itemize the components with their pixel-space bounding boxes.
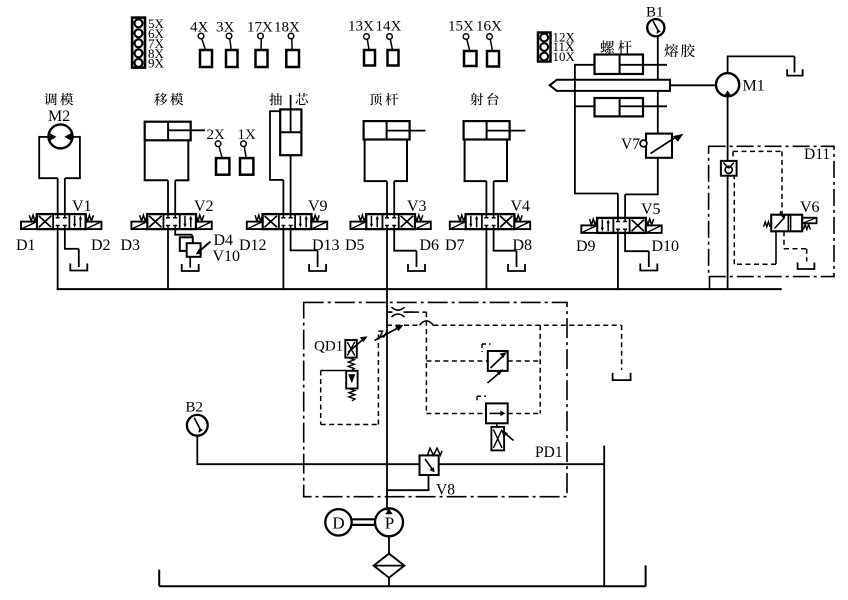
flow control valve V7 [640,134,683,158]
motor M2 [49,124,73,148]
valve V3 [350,214,430,229]
label 调模 [44,93,73,105]
valve V6 [764,211,817,231]
sequence valve V8 [420,448,443,475]
filter [374,554,405,578]
svg-text:QD1: QD1 [314,339,343,355]
pilot dashed line from orifice [414,311,426,313]
pilot relief valve 2 in PD1 [477,396,514,450]
wire: V10 to tank [189,257,191,268]
svg-text:V5: V5 [641,201,661,218]
tank PD1 drain [613,373,631,380]
svg-text:V4: V4 [511,198,531,215]
svg-text:1X: 1X [238,127,257,143]
pilot dashed box around QD1 valve [321,331,387,424]
limit switch 3X [216,20,238,68]
labels 12X 11X 10X [553,30,576,64]
injection cylinder lower [595,98,668,116]
svg-text:V6: V6 [800,199,820,216]
pilot relief valve 1 in PD1 [482,344,508,383]
valve V1 [21,214,101,229]
limit switch 15X [448,19,477,67]
svg-text:V1: V1 [72,198,92,215]
tank under V5 [640,264,657,271]
legend block 12X-10X [538,33,551,62]
svg-text:V3: V3 [407,198,427,215]
wire: cylinder to V3 ports [387,181,394,214]
legend block 5X-9X [132,18,145,68]
svg-text:D2: D2 [91,237,111,254]
svg-text:15X: 15X [448,19,474,35]
wire: V7 to V5 port B [625,158,659,218]
wire: cylinder cap side to V9 A [269,110,283,214]
label 熔胶 [664,44,694,57]
svg-text:D1: D1 [16,237,36,254]
screw shaft [550,80,670,91]
wire: M1 case drain to tank [727,56,795,73]
tank under V3 [408,264,425,271]
limit switch 18X [274,20,300,68]
svg-text:D5: D5 [345,237,365,254]
wire: V5 T to tank [624,233,649,267]
limit switch 4X [190,20,212,68]
svg-text:D9: D9 [576,238,596,255]
check valve in D11 [721,161,737,176]
pilot dashed line main to PD1 drain [387,321,622,370]
wire: M1 to check valve [727,96,729,161]
valve V4 [450,214,530,229]
wire: filter to tank [388,578,390,587]
svg-text:13X: 13X [348,19,374,35]
limit switch 13X [348,19,375,66]
limit switch 16X [476,19,502,67]
tank top-right [787,69,802,75]
svg-text:3X: 3X [216,20,235,36]
pump/motor M1 [716,73,739,96]
svg-text:V8: V8 [436,482,455,499]
variable throttle arrow on main line [375,325,404,341]
limit switch 14X [376,19,402,66]
svg-text:D12: D12 [239,237,267,254]
svg-text:M1: M1 [743,78,765,95]
valve V5 [581,218,661,233]
cylinder 顶杆 [364,121,426,181]
cylinder 抽芯 (vertical, rod up) [280,95,301,155]
orifice on branch line [387,307,414,317]
wire: D11 corner to bus [709,277,711,290]
svg-text:18X: 18X [274,20,300,36]
svg-text:D7: D7 [445,237,465,254]
tank under V4 [508,264,525,271]
electric motor D [325,509,351,535]
svg-text:2X: 2X [207,127,226,143]
block boundary QD1 (chain line) [304,302,567,496]
wire: V9 T to tank [290,229,318,267]
wire: V5 P to bus [617,233,619,289]
tank drain V6 [798,263,815,270]
svg-text:D3: D3 [121,237,141,254]
label 射台 [470,93,498,106]
wire: check valve to bus [727,176,729,289]
svg-text:B2: B2 [186,400,204,416]
hydraulic pump P [375,508,403,536]
labels 5X 6X 7X 8X 9X [148,16,165,71]
bus line (pressure rail) [57,288,782,290]
svg-text:9X: 9X [148,56,165,71]
proportional valve QD1 [345,336,367,401]
tank under V10 [182,264,199,271]
pilot dashed box PD1 network [426,312,540,413]
svg-text:10X: 10X [553,49,576,64]
relief valve V10 [180,237,211,256]
wire: V9 P to bus [282,229,284,289]
svg-text:P: P [385,514,394,533]
cylinder 射台 [464,121,526,181]
svg-text:D4: D4 [214,232,234,249]
svg-text:V2: V2 [194,198,214,215]
tank under V1 [70,264,87,271]
block boundary D11 (chain line) [709,146,834,276]
wire: V1 P to bus [57,229,59,289]
wire: cylinder to V2 ports [168,180,175,214]
shaft D to P [352,519,376,525]
svg-text:V9: V9 [308,198,328,215]
svg-text:14X: 14X [376,19,402,35]
limit switch 17X [247,20,273,68]
limit switch 1X [238,127,257,175]
wire: V1 T to tank [64,229,79,267]
label 顶杆 [369,93,398,105]
tank under V9 [309,264,326,271]
svg-text:M2: M2 [48,108,70,125]
wire: left trunk of injection cylinders [574,64,618,218]
cylinder 移模 [144,122,205,181]
label 螺杆 [600,40,631,53]
svg-text:D11: D11 [804,146,830,163]
valve V9 [247,214,327,229]
wire: cylinder bottom to V9 B [290,155,292,214]
svg-text:D10: D10 [652,238,680,255]
svg-text:D6: D6 [420,237,440,254]
wire: pump to filter [388,536,390,553]
wire: pilot line right drop [603,446,605,587]
pressure gauge B2 [187,415,208,436]
svg-text:PD1: PD1 [535,444,563,461]
wire: cylinder to V4 ports [486,181,493,214]
svg-text:16X: 16X [476,19,502,35]
wire: screw shaft to motor M1 [670,84,716,86]
svg-text:V10: V10 [213,248,241,265]
svg-text:V7: V7 [621,136,640,153]
wire: V8 drain to main line [387,475,429,490]
injection cylinder upper [595,55,668,75]
pressure gauge B1 [647,19,664,36]
wire: V3 P to pump main line [386,229,388,510]
label 抽 芯 [269,93,308,105]
wire: B1 gauge down to V7 [657,36,659,133]
wire: M2 loop to valve V1 ports [38,136,81,214]
limit switch 2X [207,127,230,175]
pilot/drain lines of V6 (dashed) [734,176,806,264]
pilot line (dashed) check valve to V6 [733,151,782,214]
wire: V2 P to bus [167,229,169,289]
main reservoir tank line [159,565,645,586]
wire: V2 T to relief V10 [174,229,192,237]
svg-text:D: D [332,513,344,532]
wire: V4 T to tank [493,229,517,267]
wire: V4 P to bus [485,229,487,289]
valve V2 [131,214,211,229]
wire: B2 to pilot line [196,436,604,465]
wire: V3 T to tank [393,229,416,267]
label 移模 [154,93,183,106]
svg-text:D13: D13 [312,237,340,254]
